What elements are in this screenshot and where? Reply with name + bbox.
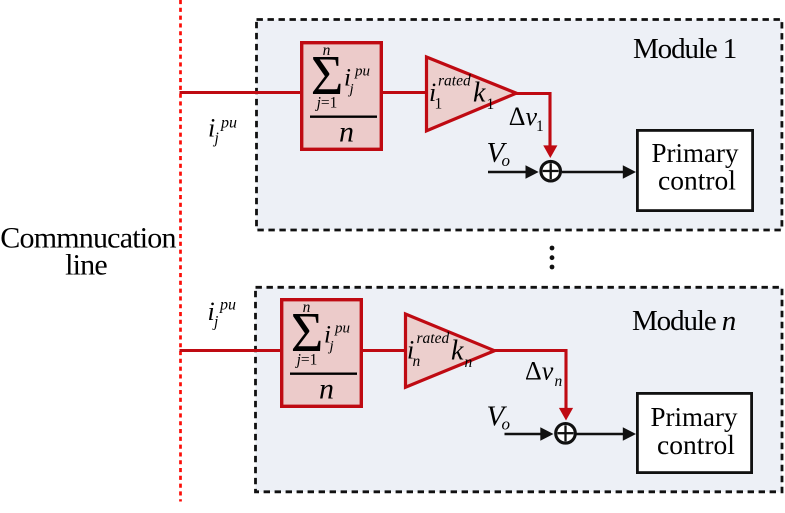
wire: comm line to averaging block (module 1): [180, 91, 304, 94]
svg-text:control: control: [657, 429, 735, 460]
gain triangle (module 1): [427, 57, 517, 131]
svg-text:k: k: [451, 336, 464, 367]
svg-text:Module n: Module n: [632, 305, 736, 337]
wire: summer to primary control (module 1): [562, 171, 624, 174]
svg-text:n: n: [413, 353, 421, 370]
module n box: [256, 287, 783, 492]
svg-text:pu: pu: [220, 115, 237, 132]
svg-text:rated: rated: [417, 330, 450, 347]
communication line (red dashed vertical): [179, 0, 182, 502]
wire: averaging block to gain triangle (module 1): [381, 91, 428, 94]
wire: comm line to averaging block (module n): [180, 349, 284, 352]
svg-text:Primary: Primary: [651, 402, 738, 432]
svg-text:rated: rated: [438, 73, 471, 90]
svg-text:n: n: [555, 373, 563, 390]
svg-text:n: n: [465, 354, 473, 371]
svg-text:o: o: [502, 415, 511, 434]
svg-text:pu: pu: [334, 321, 350, 337]
primary control box (module 1): [637, 130, 752, 210]
svg-text:j=1: j=1: [295, 351, 318, 368]
svg-text:k: k: [473, 78, 486, 109]
svg-text:1: 1: [536, 118, 544, 135]
wire: averaging block to gain triangle (module n): [361, 349, 406, 352]
svg-text:Δv: Δv: [509, 102, 538, 131]
wire: V_o into summer (module 1): [488, 171, 527, 174]
label: i_n^rated k_n (module n gain): [407, 330, 473, 371]
averaging block (module n): [282, 300, 362, 407]
svg-text:Primary: Primary: [652, 138, 739, 168]
wire: gain output to summer with red arrow (module 1): [515, 94, 551, 147]
vertical ellipsis between modules: [550, 246, 555, 251]
svg-text:control: control: [658, 165, 736, 196]
summer (module 1): [541, 161, 561, 181]
primary control box (module n): [637, 393, 751, 472]
svg-text:1: 1: [487, 96, 495, 113]
wire: summer to primary control (module n): [576, 433, 624, 436]
averaging block (module 1): [302, 43, 382, 150]
svg-text:pu: pu: [219, 297, 236, 314]
module 1 box: [257, 20, 782, 231]
svg-text:pu: pu: [354, 64, 370, 80]
svg-text:n: n: [319, 373, 334, 406]
label: i_1^rated k_1 (module 1 gain): [429, 73, 494, 114]
wire: gain output to summer with red arrow (module n): [492, 351, 566, 409]
svg-text:line: line: [65, 249, 107, 282]
svg-text:1: 1: [435, 96, 443, 113]
formula: sum over j=1..n of i_j^pu, over n (module n): [290, 299, 357, 406]
svg-text:o: o: [502, 151, 511, 170]
gain triangle (module n): [406, 314, 495, 387]
svg-text:Δv: Δv: [525, 357, 554, 386]
svg-text:n: n: [339, 116, 354, 149]
wire: V_o into summer (module n): [505, 433, 542, 436]
summer (module n): [556, 424, 576, 444]
svg-text:j=1: j=1: [315, 94, 338, 111]
formula: sum over j=1..n of i_j^pu, over n (module 1): [310, 42, 377, 149]
svg-text:Module 1: Module 1: [633, 33, 736, 65]
